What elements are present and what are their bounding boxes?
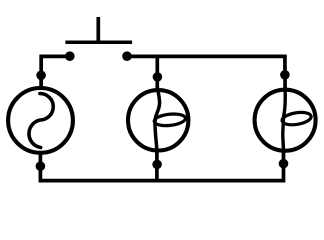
switch S1 right contact dot	[122, 51, 132, 61]
AC source V1 top terminal dot	[36, 71, 46, 81]
pushbutton switch S1 (normally-open)	[65, 17, 132, 44]
lamp L1 (middle lamp)	[128, 88, 188, 152]
wire: bottom return bus (source bottom to lamp L2 bottom, with corners)	[40, 151, 283, 181]
wire: switch left contact to AC source top (corner)	[41, 56, 70, 88]
lamp L2 top terminal dot	[280, 70, 290, 80]
wire: lamp L1 bottom lead to bottom bus	[155, 150, 159, 182]
AC source V1 (sine source)	[8, 88, 73, 153]
wire: switch right contact to lamp L2 top (top bus with corner)	[127, 56, 285, 89]
lamp L2 (right lamp)	[255, 89, 316, 152]
switch S1 left contact dot	[65, 51, 75, 61]
lamp L2 bottom terminal dot	[279, 159, 289, 169]
wire: top bus tee down to lamp L1	[155, 56, 159, 90]
AC source V1 bottom terminal dot	[36, 161, 46, 171]
lamp L1 top terminal dot	[153, 72, 163, 82]
lamp L1 bottom terminal dot	[152, 160, 162, 170]
